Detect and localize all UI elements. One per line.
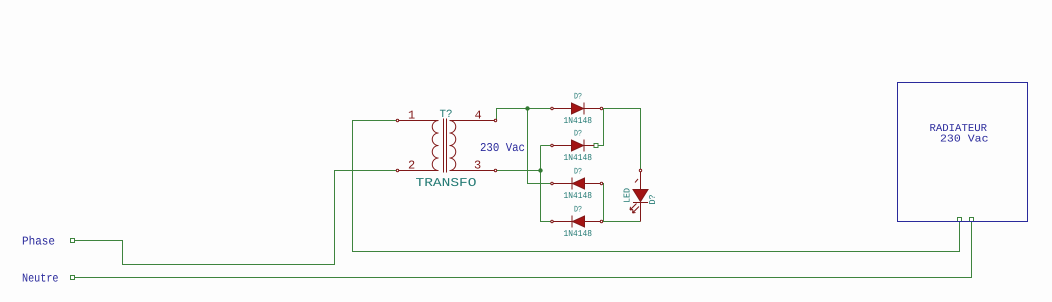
svg-text:Neutre: Neutre [22,272,59,286]
svg-text:D?: D? [574,205,582,215]
svg-text:LED: LED [623,188,633,203]
svg-text:D?: D? [574,92,582,102]
svg-text:4: 4 [475,109,482,123]
svg-text:T?: T? [440,109,453,121]
svg-text:1N4148: 1N4148 [564,153,593,163]
svg-text:D?: D? [574,129,582,139]
svg-text:3: 3 [474,159,481,173]
svg-text:D?: D? [574,167,582,177]
svg-text:D?: D? [648,195,658,205]
svg-text:2: 2 [408,159,415,173]
svg-text:230 Vac: 230 Vac [480,141,525,155]
svg-text:1N4148: 1N4148 [564,191,593,201]
svg-text:230 Vac: 230 Vac [940,134,989,146]
svg-text:TRANSFO: TRANSFO [416,176,477,190]
svg-text:1: 1 [408,109,415,123]
svg-text:Phase: Phase [22,235,55,249]
svg-text:1N4148: 1N4148 [564,116,593,126]
svg-text:1N4148: 1N4148 [564,229,593,239]
